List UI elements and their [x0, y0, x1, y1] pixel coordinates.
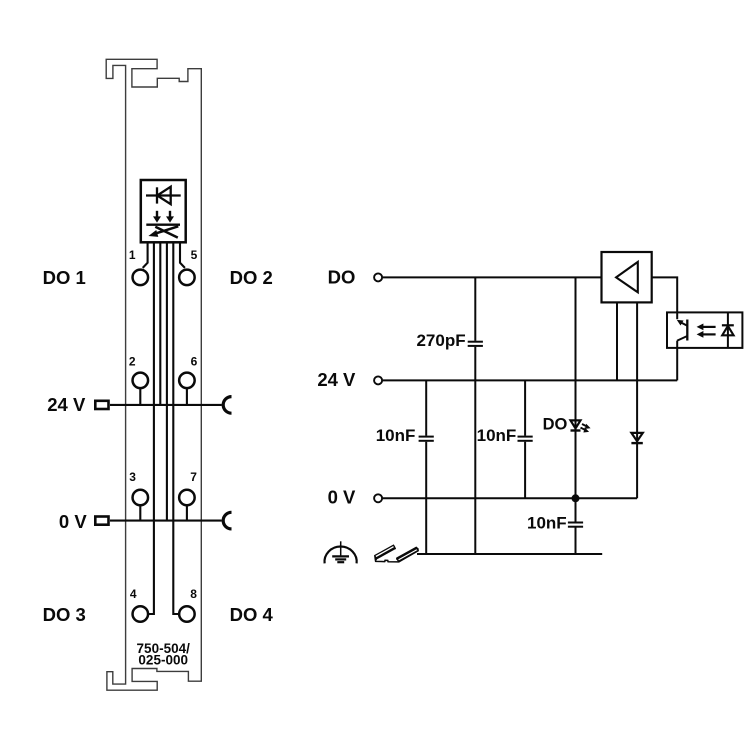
pin 7 clamp	[179, 490, 195, 506]
svg-text:DO 4: DO 4	[230, 604, 274, 625]
svg-text:10nF: 10nF	[477, 426, 517, 445]
optocoupler box U2	[667, 312, 742, 348]
svg-text:3: 3	[129, 470, 136, 484]
capacitor C1 10nF branch	[419, 380, 434, 554]
24V feed line through module	[110, 404, 222, 406]
terminal 0V	[374, 494, 382, 502]
DIN rail symbol	[374, 545, 418, 562]
svg-text:0 V: 0 V	[328, 487, 356, 508]
wire w2 block to pin 4	[149, 242, 154, 614]
chassis ground line	[417, 553, 602, 555]
wire w3 block to 24V line	[159, 242, 161, 405]
status LED DO (points down)	[571, 420, 581, 430]
junction dot on 0V	[572, 494, 580, 502]
wire w5 block to pin 8	[173, 242, 178, 614]
amp supply pin left	[616, 302, 618, 380]
pin 3 clamp	[133, 490, 149, 506]
LED emission arrows	[581, 424, 591, 433]
0V rail wire	[383, 497, 637, 499]
part number text	[137, 641, 191, 668]
stub pin7 to 0V line	[186, 506, 188, 521]
pin 8 clamp	[179, 606, 195, 622]
freewheel diode D1 (points down)	[631, 433, 642, 443]
terminal DO	[374, 273, 382, 281]
pin 6 clamp	[179, 373, 195, 389]
capacitor C3 10nF branch	[518, 380, 533, 498]
24V bus contact arc	[223, 397, 231, 414]
schematic rail labels	[317, 267, 356, 508]
opto phototransistor	[677, 312, 688, 348]
0V bus contact arc	[223, 512, 231, 529]
rail flange 2 top face	[397, 548, 418, 561]
LED pair symbol inside block	[146, 211, 180, 238]
svg-text:270pF: 270pF	[416, 331, 465, 350]
svg-text:0 V: 0 V	[59, 511, 87, 532]
0V feed line through module	[110, 520, 222, 522]
pin 5 clamp	[179, 270, 195, 286]
svg-text:7: 7	[190, 470, 197, 484]
wire w6 block to pin 5	[180, 242, 185, 268]
capacitor C4 10nF below 0V	[568, 523, 583, 527]
svg-text:6: 6	[191, 355, 198, 369]
rail flange 2 dark side	[397, 547, 418, 559]
stub pin6 to 24V line	[186, 389, 188, 405]
earth ground symbol	[325, 541, 357, 563]
electronics block U1	[141, 180, 186, 242]
wire w4 block to 0V line	[166, 242, 168, 520]
svg-text:DO 3: DO 3	[43, 604, 86, 625]
diode D-block (points left) inside block	[146, 187, 181, 205]
svg-text:DO: DO	[328, 267, 356, 288]
module outline 750-504 housing	[106, 59, 201, 690]
capacitor C2 270pF branch	[468, 277, 483, 554]
rail flange 2 left end cap	[396, 558, 399, 562]
rail flange 1 right end cap	[394, 545, 396, 549]
opto internal diode (points up)	[722, 312, 734, 348]
amplifier triangle	[616, 262, 638, 292]
rail flange 2 right end cap	[416, 547, 419, 551]
LED branch wire	[575, 277, 577, 554]
amplifier block A1	[602, 252, 652, 302]
24V rail wire	[383, 379, 678, 381]
opto light arrows	[697, 324, 716, 338]
amp supply pin right / diode branch	[636, 302, 638, 498]
svg-text:DO 1: DO 1	[43, 267, 86, 288]
pin 1 clamp	[133, 270, 149, 286]
stub pin2 to 24V line	[139, 389, 141, 405]
svg-text:24 V: 24 V	[317, 369, 356, 390]
24V spade terminal square	[95, 401, 108, 409]
module channel labels	[43, 267, 274, 625]
svg-text:DO 2: DO 2	[230, 267, 273, 288]
stub pin3 to 0V line	[139, 506, 141, 521]
DO wire amp to corner	[652, 277, 678, 312]
pin 4 clamp	[133, 606, 149, 622]
rail flange 1 top face	[375, 545, 395, 558]
svg-text:1: 1	[129, 248, 136, 262]
svg-text:2: 2	[129, 355, 136, 369]
pin 2 clamp	[133, 373, 149, 389]
svg-text:8: 8	[190, 587, 197, 601]
svg-text:10nF: 10nF	[527, 514, 567, 533]
pin number labels	[129, 248, 198, 601]
wire w1 block to pin 1	[143, 242, 148, 268]
rail flange 1 dark side	[376, 548, 396, 560]
svg-text:DO: DO	[543, 415, 568, 433]
svg-text:24 V: 24 V	[47, 394, 86, 415]
rail left end cap	[374, 556, 376, 561]
svg-text:4: 4	[130, 587, 137, 601]
opto wire below box to 24V	[676, 348, 678, 381]
terminal 24V	[374, 376, 382, 384]
0V spade terminal square	[95, 517, 108, 525]
rail base with notch	[375, 551, 419, 562]
svg-text:5: 5	[191, 248, 198, 262]
svg-text:10nF: 10nF	[376, 426, 416, 445]
svg-text:025-000: 025-000	[138, 653, 188, 668]
DO rail wire	[383, 276, 602, 278]
